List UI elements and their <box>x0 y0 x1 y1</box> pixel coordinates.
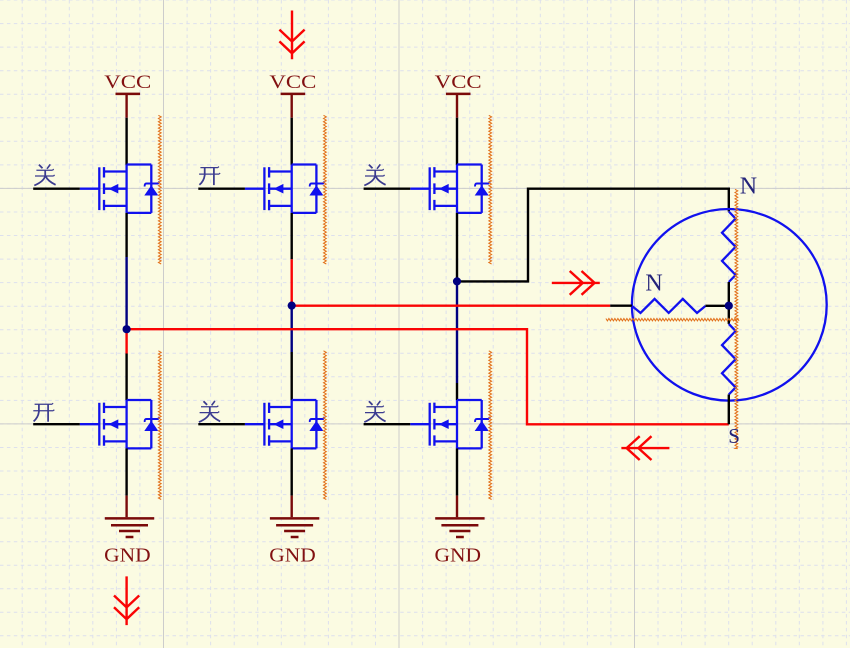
wire VCC to Q3 drain <box>456 118 458 165</box>
transistor Q6 (low side, phase C) <box>410 400 490 448</box>
ERC marker at Q6 <box>489 351 492 500</box>
label 关 (Q6 off) <box>364 401 385 422</box>
svg-text:GND: GND <box>435 544 482 566</box>
ground GND (phase B) <box>291 496 293 518</box>
wire Q6 source to GND <box>456 448 458 495</box>
label 关 (Q3 off) <box>364 164 385 185</box>
svg-text:VCC: VCC <box>435 72 482 93</box>
winding left (N) <box>632 299 705 313</box>
power port VCC (phase C) <box>446 93 471 96</box>
wire Q4 source to GND <box>125 448 127 495</box>
wire phase C to motor N terminal <box>457 189 729 282</box>
wire to Q4 drain (black) <box>125 354 127 401</box>
junction phase B <box>288 302 296 310</box>
wire phase A red segment <box>125 329 127 353</box>
wire phase B net (blue) <box>291 306 293 352</box>
current arrow into bridge (top) <box>279 11 304 60</box>
current arrow out of bridge (bottom) <box>114 576 139 625</box>
ground GND (phase A) <box>125 496 127 518</box>
wire phase A to motor S terminal (red) <box>127 329 729 424</box>
ERC marker at Q2 <box>324 115 327 264</box>
ERC marker at Q1 <box>158 115 161 264</box>
wire gate Q6 <box>364 423 411 425</box>
wire center to bottom winding <box>728 306 730 324</box>
ERC marker motor horizontal <box>606 319 739 321</box>
wire left winding to center <box>705 305 728 307</box>
current arrow out of motor (left) <box>621 436 669 460</box>
winding bottom (S) <box>722 324 736 395</box>
motor M1 stator circle <box>632 209 827 401</box>
transistor Q1 (high side, phase A) <box>80 165 160 213</box>
junction phase A <box>123 325 131 333</box>
transistor Q5 (low side, phase B) <box>245 400 325 448</box>
wire VCC to Q2 drain <box>291 118 293 165</box>
wire gate Q5 <box>198 423 245 425</box>
svg-text:GND: GND <box>269 544 316 566</box>
svg-text:N: N <box>645 270 662 296</box>
wire phase C net (blue) <box>456 281 458 383</box>
winding top (N) <box>722 212 736 283</box>
wire gate Q2 <box>198 187 245 189</box>
wire phase A net (blue) <box>125 257 127 329</box>
ERC marker at Q3 <box>489 115 492 264</box>
ground GND (phase C) <box>456 496 458 518</box>
power port VCC (phase B) <box>281 93 306 96</box>
svg-text:S: S <box>728 424 740 448</box>
junction phase C <box>453 277 461 285</box>
svg-text:VCC: VCC <box>104 72 151 93</box>
wire gate Q3 <box>364 187 411 189</box>
ERC marker at Q5 <box>324 351 327 500</box>
wire phase B to motor center winding (red) <box>292 305 611 307</box>
label 开 (Q4 on) <box>33 403 54 422</box>
wire gate Q4 <box>33 423 80 425</box>
wire Q3 source down (black) <box>456 213 458 280</box>
wire to Q5 drain (black) <box>291 352 293 400</box>
svg-text:GND: GND <box>104 544 151 566</box>
label 关 (Q1 off) <box>34 164 55 185</box>
transistor Q3 (high side, phase C) <box>410 165 490 213</box>
junction motor center <box>725 302 733 310</box>
wire winding top to center <box>728 282 730 306</box>
wire to Q6 drain (black) <box>456 383 458 400</box>
svg-text:N: N <box>740 174 757 200</box>
wire Q2 source down (black) <box>291 213 293 259</box>
transistor Q4 (low side, phase A) <box>80 400 160 448</box>
transistor Q2 (high side, phase B) <box>245 165 325 213</box>
ERC marker motor vertical <box>735 189 738 448</box>
svg-text:VCC: VCC <box>269 72 316 93</box>
wire stub left winding <box>610 305 632 307</box>
label 关 (Q5 off) <box>199 401 220 422</box>
wire VCC to Q1 drain <box>125 118 127 165</box>
current arrow into motor (right) <box>552 271 600 295</box>
wire motor S terminal <box>728 395 730 425</box>
wire gate Q1 <box>33 187 80 189</box>
wire Q1 source down (black) <box>125 213 127 257</box>
ERC marker at Q4 <box>158 351 161 500</box>
wire Q5 source to GND <box>291 448 293 495</box>
label 开 (Q2 on) <box>199 167 220 186</box>
wire phase B red segment <box>291 259 293 305</box>
power port VCC (phase A) <box>116 93 141 96</box>
